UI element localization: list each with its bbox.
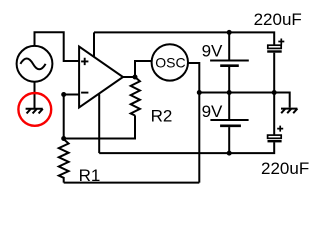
resistor R1	[59, 139, 69, 183]
oscilloscope OSC	[152, 44, 188, 80]
wire -9V bottom rail	[99, 142, 274, 153]
wire AC source top to op-amp + input	[35, 32, 80, 61]
wire inverting input	[64, 95, 79, 139]
svg-text:220uF: 220uF	[261, 159, 309, 178]
ground (signal ground, red-circled)	[26, 109, 43, 114]
battery B2 9V top lead	[228, 93, 230, 120]
wire op-amp V- pin	[98, 94, 100, 153]
junction mid rail / OSC wire	[197, 90, 202, 95]
junction inverting input corner	[61, 92, 66, 97]
wire op-amp V+ pin to +9V rail	[93, 32, 95, 57]
ground (right, mid-rail)	[281, 109, 297, 114]
wire +9V top rail	[94, 32, 274, 45]
junction -9V rail / B2	[227, 151, 232, 156]
junction mid rail / caps+ground	[272, 90, 277, 95]
svg-text:R2: R2	[151, 106, 173, 125]
svg-text:220uF: 220uF	[254, 10, 302, 29]
wire op-amp output	[123, 76, 135, 78]
capacitor C1 + sign	[278, 39, 284, 45]
junction +9V rail / B1	[227, 30, 232, 35]
junction op-amp output node	[133, 75, 138, 80]
battery B2 bottom lead	[228, 127, 230, 153]
wire mid (0V) rail	[199, 92, 274, 94]
wire bottom ground return to R1	[64, 182, 200, 184]
capacitor C2 + sign	[277, 126, 283, 132]
capacitor C1 bottom lead	[273, 53, 275, 93]
op-amp - symbol	[81, 92, 88, 94]
AC source V1	[17, 46, 53, 82]
junction R1/R2 node	[61, 136, 66, 141]
capacitor C1 220uF plates	[268, 45, 281, 48]
red highlight circle	[18, 93, 51, 126]
capacitor C2 top lead	[273, 93, 275, 136]
svg-text:9V: 9V	[202, 42, 223, 61]
svg-text:9V: 9V	[202, 102, 223, 121]
capacitor C2 220uF plates	[268, 135, 282, 138]
op-amp U1	[79, 47, 123, 108]
wire AC source bottom lead	[34, 82, 36, 108]
wire OSC right terminal down to bottom rail	[188, 63, 199, 183]
resistor R2	[131, 77, 140, 116]
battery B2 plates	[210, 119, 248, 121]
wire right ground branch	[274, 93, 290, 108]
svg-text:R1: R1	[79, 166, 101, 185]
battery B1 plates	[210, 60, 249, 62]
battery B1 9V top lead	[228, 32, 230, 59]
op-amp + symbol	[81, 58, 88, 65]
wire output up to OSC left	[135, 61, 152, 77]
junction mid rail / batteries	[227, 90, 232, 95]
svg-text:OSC: OSC	[155, 55, 185, 71]
wire feedback from R2 bottom	[64, 115, 135, 138]
battery B1 bottom lead	[228, 67, 230, 93]
